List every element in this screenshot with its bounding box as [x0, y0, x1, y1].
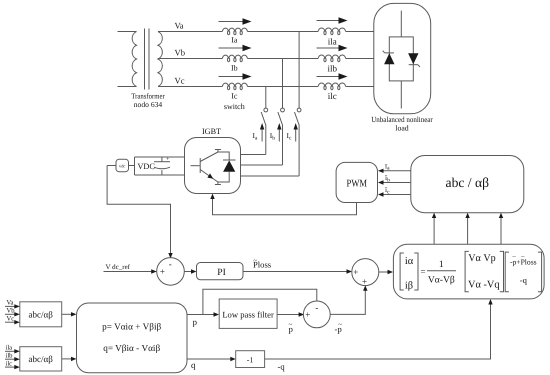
svg-text:Vc: Vc [175, 76, 185, 86]
current arrow Ia [219, 18, 252, 24]
wire q output to gain [187, 357, 236, 361]
wire p output to LPF [187, 312, 219, 316]
inductor Ib [222, 55, 247, 58]
svg-text:1: 1 [439, 259, 444, 270]
wire phase a to load [346, 31, 374, 33]
svg-text:-q: -q [278, 362, 286, 372]
wire mid up to abc block [465, 213, 469, 245]
svg-text:abc / αβ: abc / αβ [446, 175, 490, 190]
label p tilde [289, 321, 294, 335]
current arrow Ic compensation [294, 123, 298, 142]
IGBT symbol Q1 [191, 150, 221, 185]
svg-text:-1: -1 [247, 355, 254, 364]
wire switch c to IGBT [241, 154, 266, 156]
svg-text:Ib: Ib [231, 64, 238, 73]
summing junction S3 [303, 301, 330, 328]
thyristor D2 [408, 53, 420, 67]
svg-text:abc/αβ: abc/αβ [29, 310, 54, 320]
svg-text:Vb: Vb [7, 308, 16, 315]
summing junction S2 [352, 259, 379, 287]
svg-text:~: ~ [338, 321, 342, 329]
label -p tilde [335, 321, 343, 335]
svg-text:Low pass filter: Low pass filter [222, 309, 274, 319]
gain block -1 [236, 351, 265, 368]
PI block [197, 263, 244, 280]
diode D3 antiparallel [218, 152, 236, 182]
svg-text:p: p [193, 317, 198, 327]
svg-text:+: + [353, 267, 358, 277]
wire switch a to IGBT [241, 175, 300, 177]
wire tap phase a down [298, 32, 300, 109]
current arrow Ib [219, 45, 252, 51]
svg-text:VDC: VDC [138, 162, 156, 171]
abc/alphabeta converter block top [411, 156, 524, 213]
wire phase a middle [248, 31, 319, 33]
wire S2 to matrix block [379, 270, 393, 274]
wire switch b to IGBT [241, 164, 283, 166]
load bottom wire [400, 81, 402, 109]
wire ia ref to PWM [378, 169, 411, 173]
wire Vdcref input [104, 269, 157, 273]
vector p q brackets [505, 252, 541, 292]
matrix V brackets [465, 251, 503, 291]
svg-text:Va: Va [7, 300, 14, 307]
wire ila input [5, 349, 20, 353]
svg-text:ila: ila [6, 345, 13, 352]
svg-text:Ic: Ic [231, 92, 238, 101]
svg-text:Ic: Ic [287, 131, 293, 142]
wire vdc feedback [107, 166, 170, 258]
svg-text:vdc: vdc [119, 164, 125, 169]
unbalanced nonlinear load block [374, 3, 431, 113]
svg-text:ilc: ilc [328, 91, 337, 101]
svg-text:īb: īb [384, 173, 390, 183]
fraction 1 over Valpha-Vbeta [427, 259, 456, 285]
svg-text:~: ~ [253, 256, 257, 264]
svg-text:Vc: Vc [7, 316, 15, 323]
load top wire [400, 11, 402, 37]
svg-text:p= Vαiα + Vβiβ: p= Vαiα + Vβiβ [102, 321, 161, 331]
svg-text:abc/αβ: abc/αβ [29, 354, 54, 364]
svg-text:-: - [315, 303, 318, 313]
svg-text:load: load [395, 124, 409, 133]
inductor ila [318, 28, 346, 32]
wire LPF to S3 [277, 312, 304, 316]
switch Sa [295, 108, 302, 176]
svg-text:Ib: Ib [270, 131, 276, 142]
svg-text:q: q [191, 360, 196, 370]
transformer label [131, 92, 165, 110]
svg-text:iβ: iβ [405, 281, 413, 292]
wire ilb input [5, 357, 20, 361]
wire IGBT dc bus bottom [135, 174, 185, 176]
wire phase b from transformer [158, 58, 222, 60]
wire phase b middle [248, 58, 319, 60]
svg-text:Ia: Ia [253, 131, 259, 142]
svg-text:ila: ila [328, 37, 337, 47]
wire ialpha up to abc block [432, 213, 436, 245]
capacitor C1 [154, 157, 170, 176]
vdc sensor box [107, 159, 134, 171]
wire -q to matrix block [265, 299, 493, 359]
current arrow ilb [317, 45, 348, 51]
wire ibeta up to abc block [499, 213, 503, 245]
wire Vc input [5, 320, 20, 324]
abc small converter box 1 [20, 302, 62, 327]
wire ic ref to PWM [378, 192, 411, 196]
low pass filter block [219, 299, 277, 328]
current arrow Ib compensation [277, 123, 281, 142]
svg-text:Va: Va [175, 21, 184, 31]
svg-text:=: = [421, 267, 426, 277]
wire ilc input [5, 365, 20, 369]
wire phase b to load [346, 58, 374, 60]
matrix ialpha ibeta brackets [400, 253, 418, 292]
current arrow ilc [317, 73, 348, 79]
wire phase a from transformer [158, 31, 222, 33]
svg-text:switch: switch [224, 102, 245, 111]
transformer T1 primary winding [118, 32, 137, 87]
svg-text:iα: iα [405, 256, 414, 267]
current arrow Ic [219, 73, 252, 79]
wire Vb input [5, 312, 20, 316]
wire PI to S2 [243, 269, 352, 273]
svg-text:īa: īa [384, 162, 390, 172]
wire ib ref to PWM [378, 180, 411, 184]
wire S1 to PI [184, 269, 196, 273]
wire tap phase b down [282, 59, 284, 109]
wire p branch over LPF to S3 [203, 289, 317, 314]
load inner rectangle [389, 37, 413, 81]
svg-text:Vb: Vb [175, 48, 186, 58]
wire phase c from transformer [158, 86, 222, 88]
summing junction S1 [157, 258, 185, 286]
wire S3 to S2 [330, 285, 367, 314]
wire phase c to load [346, 86, 374, 88]
wire phase c middle [248, 86, 319, 88]
svg-text:Vα-Vβ: Vα-Vβ [428, 274, 455, 285]
label Ploss [253, 256, 272, 269]
svg-text:ilc: ilc [6, 360, 13, 367]
transformer T1 secondary winding [158, 32, 162, 87]
svg-text:nodo 634: nodo 634 [134, 100, 163, 109]
wire PWM to IGBT gate [210, 194, 356, 215]
wire i alphabeta to pq block [62, 357, 77, 361]
current reference matrix block [393, 244, 544, 299]
current arrow Ia compensation [260, 123, 264, 142]
thyristor D1 [383, 51, 395, 65]
svg-text:Ia: Ia [231, 36, 238, 45]
inductor ilb [318, 55, 346, 59]
wire dc bus left closure [134, 157, 136, 175]
svg-text:Vα Vp: Vα Vp [468, 253, 496, 264]
abc small converter box 2 [20, 347, 62, 371]
current arrow ila [317, 17, 348, 23]
load label [371, 115, 433, 133]
svg-text:V dc_ref: V dc_ref [106, 264, 131, 271]
svg-text:PWM: PWM [347, 178, 368, 189]
transformer T1 core [145, 29, 150, 90]
inductor Ia [222, 28, 247, 31]
svg-text:-: - [169, 259, 172, 269]
switch Sc [261, 108, 267, 154]
inductor ilc [318, 83, 346, 87]
switch Sb [278, 108, 285, 165]
svg-text:+: + [160, 267, 165, 277]
svg-text:ilb: ilb [328, 64, 338, 74]
svg-text:īc: īc [384, 185, 390, 195]
wire V alphabeta to pq block [62, 312, 77, 316]
IGBT block U1 [185, 138, 241, 194]
pq power calculation block [77, 303, 188, 373]
svg-text:+: + [362, 276, 367, 286]
wire tap phase c down [265, 87, 267, 109]
wire Va input [5, 304, 20, 308]
svg-text:~: ~ [289, 321, 293, 329]
inductor Ic [222, 83, 247, 86]
svg-text:Vα -Vq: Vα -Vq [468, 280, 500, 291]
wire IGBT dc bus top [135, 156, 185, 158]
svg-text:IGBT: IGBT [202, 127, 221, 136]
arrow into sum S1 [168, 253, 172, 259]
svg-text:-q: -q [520, 275, 528, 285]
svg-text:ilb: ilb [6, 353, 14, 360]
svg-text:+: + [305, 310, 310, 320]
PWM block [336, 162, 377, 202]
svg-text:q= Vβiα - Vαiβ: q= Vβiα - Vαiβ [103, 343, 160, 353]
svg-text:PI: PI [217, 267, 226, 278]
